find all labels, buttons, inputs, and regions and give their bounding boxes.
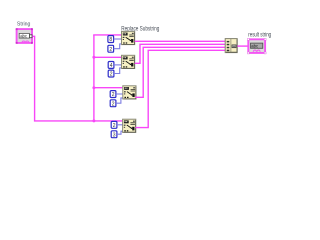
wire: node 2 output to concatenate input 2	[135, 44, 226, 63]
svg-text:2: 2	[112, 101, 115, 107]
Replace Substring node 4	[123, 119, 136, 132]
wire: lower constant to node 3	[116, 98, 123, 103]
svg-text:abc: abc	[251, 44, 258, 49]
svg-text:2: 2	[113, 123, 116, 129]
Replace Substring node 3	[123, 86, 136, 99]
numeric constant 3 (node 4 length)	[111, 131, 117, 139]
svg-text:2: 2	[112, 92, 115, 98]
wire: vertical trunk up from bottom run	[93, 35, 95, 121]
wire: constant to node 3	[116, 93, 123, 95]
wire: constant 2 to node 1	[114, 44, 122, 49]
wire: branch to node 3 input	[93, 87, 122, 89]
wire: constant 2 to node 2	[114, 68, 122, 74]
numeric constant 2 (node 3 offset)	[110, 91, 116, 99]
svg-text:abc: abc	[20, 34, 27, 39]
junction on trunk at node 2 branch	[92, 56, 95, 59]
numeric constant 2 (node 4 offset)	[111, 121, 117, 129]
junction on trunk at bottom run	[92, 119, 95, 122]
wire: constant 8 to node 1	[114, 38, 122, 40]
wire: concatenate output to result string indicator	[237, 45, 248, 47]
wire: constant to node 4	[117, 124, 123, 126]
label: String	[17, 22, 31, 28]
wire: String control to node 4 input (down, then right along bottom)	[32, 36, 122, 121]
Concatenate Strings node	[225, 39, 237, 53]
svg-text:2: 2	[110, 72, 113, 78]
Replace Substring node 1	[122, 31, 135, 44]
wire: node 3 output to concatenate input 3	[135, 47, 225, 97]
Replace Substring node 2	[122, 55, 135, 68]
numeric constant 4 (node 2 offset)	[108, 62, 114, 70]
string indicator terminal "result string"	[247, 38, 266, 54]
svg-text:8: 8	[109, 37, 112, 43]
numeric constant 2 (node 2 length)	[108, 70, 114, 78]
numeric constant 2 (node 3 length)	[110, 100, 116, 108]
string control terminal "String"	[16, 28, 33, 44]
wire: branch to node 1 input	[93, 34, 122, 36]
junction on trunk at node 3 branch	[92, 86, 95, 89]
wire: constant 4 to node 2	[114, 64, 122, 66]
svg-text:2: 2	[109, 47, 112, 53]
numeric constant 8 (node 1 offset)	[108, 36, 114, 44]
svg-text:3: 3	[113, 132, 116, 138]
wire: node 1 output to concatenate input 1	[135, 40, 226, 42]
label: result string	[248, 32, 271, 38]
svg-text:4: 4	[110, 63, 113, 69]
wire: lower constant to node 4	[117, 131, 123, 134]
wire: branch to node 2 input	[93, 56, 122, 58]
numeric constant 2 (node 1 length)	[108, 45, 114, 53]
svg-text:String: String	[17, 22, 31, 28]
label: Replace Substring	[121, 25, 159, 32]
svg-text:result string: result string	[248, 32, 271, 38]
wire: node 4 output to concatenate input 4	[135, 50, 225, 127]
